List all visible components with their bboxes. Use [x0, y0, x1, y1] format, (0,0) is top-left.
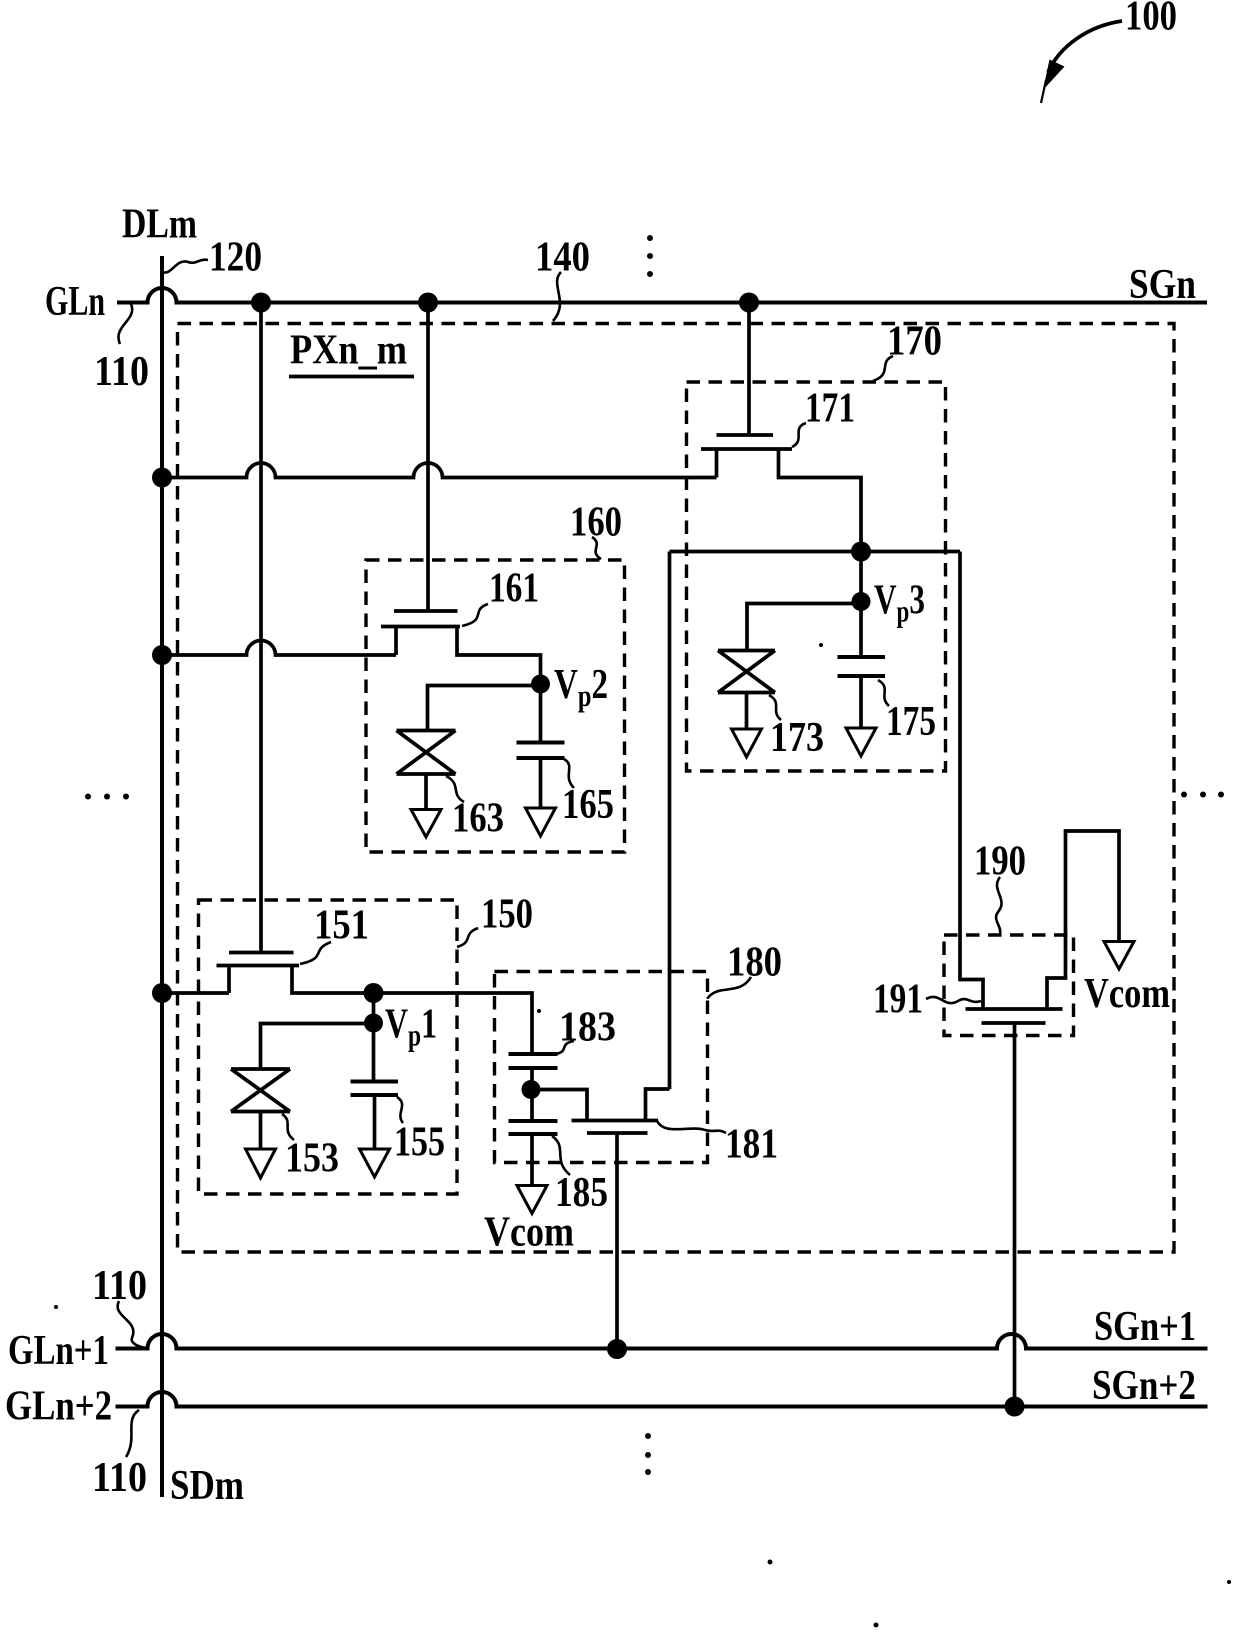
- svg-text:150: 150: [481, 892, 533, 938]
- svg-text:140: 140: [535, 235, 590, 281]
- svg-text:SDm: SDm: [170, 1463, 244, 1509]
- svg-text:SGn: SGn: [1129, 262, 1196, 308]
- svg-text:153: 153: [285, 1136, 339, 1182]
- svg-text:PXn_m: PXn_m: [290, 328, 407, 374]
- svg-text:180: 180: [727, 940, 782, 986]
- svg-text:100: 100: [1125, 0, 1177, 40]
- svg-text:191: 191: [873, 977, 923, 1023]
- svg-text:161: 161: [489, 566, 539, 612]
- svg-text:110: 110: [94, 349, 149, 395]
- svg-text:SGn+2: SGn+2: [1092, 1363, 1196, 1409]
- svg-text:165: 165: [562, 782, 614, 828]
- svg-text:175: 175: [886, 699, 936, 745]
- svg-text:190: 190: [974, 839, 1026, 885]
- svg-text:GLn+1: GLn+1: [8, 1328, 109, 1374]
- svg-text:181: 181: [725, 1122, 778, 1168]
- svg-text:GLn: GLn: [45, 279, 105, 325]
- svg-text:110: 110: [92, 1263, 147, 1309]
- svg-text:160: 160: [570, 500, 622, 546]
- svg-text:155: 155: [394, 1120, 445, 1166]
- svg-text:Vcom: Vcom: [1084, 971, 1170, 1017]
- svg-text:171: 171: [805, 386, 855, 432]
- svg-text:163: 163: [452, 796, 504, 842]
- svg-text:Vcom: Vcom: [484, 1210, 574, 1256]
- svg-text:170: 170: [887, 319, 942, 365]
- svg-text:SGn+1: SGn+1: [1094, 1304, 1196, 1350]
- svg-text:GLn+2: GLn+2: [5, 1384, 112, 1430]
- svg-text:173: 173: [770, 715, 824, 761]
- svg-text:183: 183: [559, 1005, 616, 1051]
- svg-text:151: 151: [314, 903, 369, 949]
- svg-text:120: 120: [209, 235, 262, 281]
- svg-text:110: 110: [92, 1455, 147, 1501]
- svg-text:DLm: DLm: [122, 202, 197, 248]
